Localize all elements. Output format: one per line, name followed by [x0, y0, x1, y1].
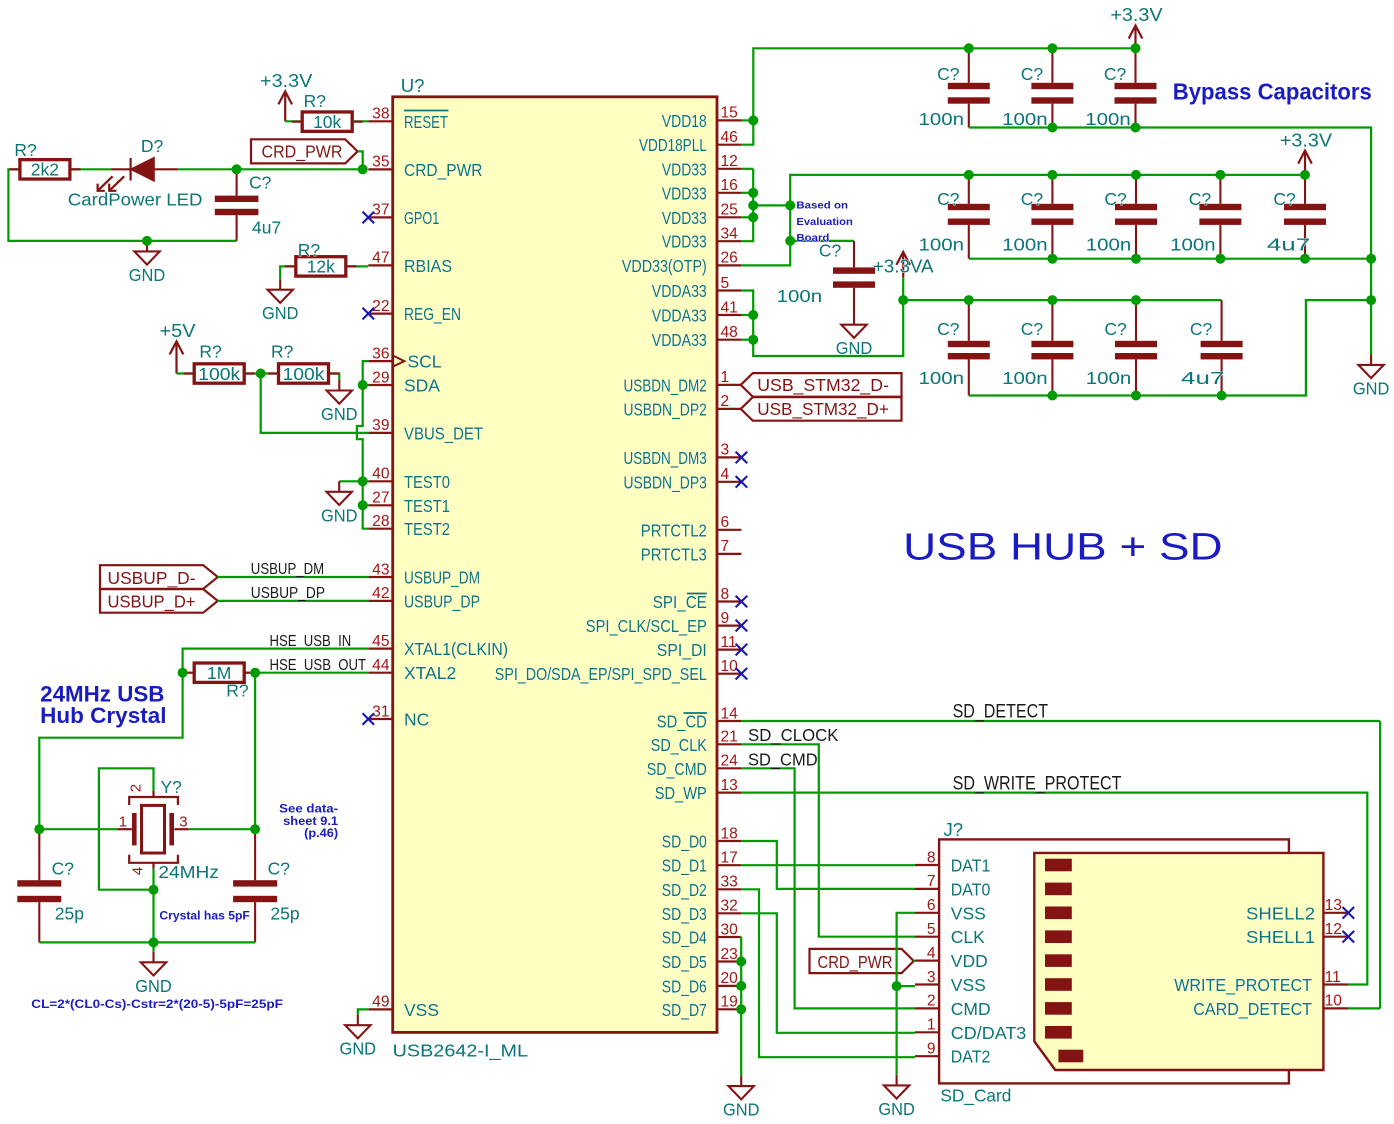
svg-text:12: 12: [721, 153, 738, 170]
connector pin 12 SHELL1: [1323, 936, 1348, 938]
svg-text:2k2: 2k2: [31, 160, 59, 180]
wire USBUP_D- to pin: [218, 576, 368, 578]
wire SD_D1 to DAT1: [741, 864, 915, 866]
svg-text:7: 7: [721, 538, 730, 555]
no-connect pin 3: [736, 452, 748, 464]
wire 2k2 to LED: [70, 168, 111, 170]
svg-text:USBUP_D+: USBUP_D+: [108, 592, 196, 613]
connector pin 4 VDD: [915, 959, 939, 961]
svg-text:C?: C?: [268, 859, 291, 879]
svg-text:SD_D1: SD_D1: [662, 856, 707, 877]
svg-text:19: 19: [721, 994, 738, 1011]
svg-text:CLK: CLK: [951, 927, 985, 947]
svg-text:37: 37: [372, 202, 389, 219]
junction link right: [785, 200, 795, 210]
svg-text:USBUP_DP: USBUP_DP: [251, 585, 325, 602]
svg-text:VSS: VSS: [404, 1000, 439, 1020]
svg-text:SD_Card: SD_Card: [940, 1086, 1011, 1107]
svg-text:HSE_USB_IN: HSE_USB_IN: [270, 633, 352, 650]
svg-text:2: 2: [128, 784, 145, 792]
no-connect pin 37: [363, 212, 375, 224]
svg-text:30: 30: [721, 921, 739, 938]
svg-text:CRD_PWR: CRD_PWR: [262, 142, 343, 163]
connector pin 1 CD/DAT3: [915, 1031, 939, 1033]
SD pad 7: [1045, 1002, 1072, 1015]
svg-text:U?: U?: [401, 75, 425, 96]
svg-text:13: 13: [721, 777, 738, 794]
junction rail3 top x1052: [1047, 295, 1057, 305]
svg-text:SD_D6: SD_D6: [662, 976, 707, 997]
svg-text:C?: C?: [1273, 189, 1296, 209]
bypass capacitor C? 100n (row1-2): [1031, 48, 1073, 127]
resistor R? 100k (2) leads: [268, 372, 339, 374]
wire XTAL2 to 1M right: [255, 672, 368, 674]
svg-text:GPO1: GPO1: [404, 208, 439, 228]
svg-text:27: 27: [372, 490, 389, 507]
pin 46 VDD18PLL (right): [717, 144, 741, 146]
svg-text:+3.3V: +3.3V: [1110, 4, 1163, 25]
wire +3.3VA stem: [902, 277, 904, 300]
svg-text:Hub Crystal: Hub Crystal: [40, 703, 166, 728]
svg-text:SHELL1: SHELL1: [1246, 927, 1315, 947]
wire SCL/SDA/TEST vertical: [357, 361, 368, 529]
svg-text:15: 15: [721, 105, 739, 122]
svg-text:40: 40: [372, 466, 390, 483]
svg-text:USBDN_DP2: USBDN_DP2: [624, 399, 707, 420]
svg-text:24MHz: 24MHz: [158, 862, 219, 882]
pin 24 SD_CMD (right): [717, 767, 741, 769]
wire crystal gnd rail: [39, 941, 255, 943]
pin 8 SPI_CE (right): [717, 600, 741, 602]
svg-text:USB2642-I_ML: USB2642-I_ML: [393, 1041, 529, 1062]
bypass capacitor C? 4u7 (row3-4): [1201, 300, 1243, 395]
pin 16 VDD33 (right): [717, 192, 741, 194]
hierarchical label CRD_PWR: [251, 139, 358, 163]
junction link left: [748, 200, 758, 210]
SPI_CE overline: [687, 593, 707, 595]
pin 4 USBDN_DP3 (right): [717, 481, 741, 483]
SD pad 5: [1045, 954, 1072, 967]
svg-text:CARD_DETECT: CARD_DETECT: [1193, 999, 1312, 1020]
SD pad 3: [1045, 907, 1072, 920]
resistor R? 1M leads: [184, 672, 255, 674]
wire CRD_PWR tip to pin35: [358, 151, 363, 169]
svg-text:R?: R?: [226, 680, 249, 700]
svg-text:8: 8: [721, 586, 730, 603]
svg-text:C?: C?: [1021, 64, 1044, 84]
pin 11 SPI_DI (right): [717, 648, 741, 650]
wire SD_DETECT: [741, 720, 1380, 722]
bypass capacitor C? 100n (row2-1): [948, 175, 990, 259]
svg-text:49: 49: [372, 994, 389, 1011]
svg-text:100n: 100n: [1086, 368, 1132, 388]
svg-text:+3.3V: +3.3V: [260, 70, 313, 91]
svg-text:12: 12: [1325, 921, 1342, 938]
svg-text:VSS: VSS: [951, 975, 986, 995]
svg-text:SD_D4: SD_D4: [662, 928, 707, 949]
svg-text:2: 2: [927, 993, 936, 1010]
connector pin 6 VSS: [915, 912, 939, 914]
power +3.3VA: [896, 252, 910, 277]
SD pad 4: [1045, 930, 1072, 943]
no-connect pin 10: [736, 668, 748, 680]
power +3.3V (rail2): [1298, 151, 1312, 175]
power +3.3V (rail1): [1129, 26, 1143, 49]
resistor R? 2k2 leads: [9, 168, 80, 170]
power +5V: [170, 341, 184, 373]
svg-text:22: 22: [372, 298, 389, 315]
junction rail3 bottom x1221: [1217, 391, 1227, 401]
capacitor C? 25p (left): [17, 829, 61, 942]
pin 49 VSS (left): [368, 1008, 392, 1010]
junction rail2 bottom x1052: [1047, 254, 1057, 264]
wire SD_D2 to DAT2: [741, 889, 915, 1057]
svg-text:C?: C?: [249, 172, 272, 192]
svg-text:USBUP_DM: USBUP_DM: [251, 561, 324, 578]
LED D? CardPower: [98, 158, 178, 191]
pin 34 VDD33 (right): [717, 240, 741, 242]
svg-text:DAT2: DAT2: [951, 1047, 991, 1067]
junction SDA: [358, 380, 368, 390]
ground (VSS): [345, 1015, 370, 1039]
svg-text:SD_CLOCK: SD_CLOCK: [748, 725, 839, 746]
svg-text:100k: 100k: [198, 364, 240, 384]
svg-text:16: 16: [721, 177, 738, 194]
pin 39 VBUS_DET (left): [368, 432, 392, 434]
wire VDDA33 chain: [741, 291, 903, 357]
wire VSS3 stub: [897, 985, 915, 987]
svg-text:GND: GND: [321, 404, 358, 424]
SD pad 1: [1045, 859, 1072, 872]
svg-text:SD_WRITE_PROTECT: SD_WRITE_PROTECT: [953, 774, 1122, 795]
pin 2 USBDN_DP2 (right): [717, 408, 741, 410]
wire +3.3V to R 10k: [285, 120, 302, 122]
svg-text:SPI_DO/SDA_EP/SPI_SPD_SEL: SPI_DO/SDA_EP/SPI_SPD_SEL: [495, 664, 707, 685]
svg-text:RBIAS: RBIAS: [404, 256, 452, 276]
wire pin12 stub: [741, 168, 753, 170]
ground (RBIAS): [268, 279, 293, 303]
bypass capacitor C? 100n (row1-3): [1115, 48, 1157, 127]
svg-text:4u7: 4u7: [252, 218, 281, 238]
wire SD_CMD: [741, 768, 915, 1008]
svg-text:25p: 25p: [55, 904, 84, 924]
SD pad 9 (DAT2): [1058, 1050, 1083, 1063]
svg-text:XTAL1(CLKIN): XTAL1(CLKIN): [404, 639, 508, 659]
svg-text:4: 4: [927, 945, 936, 962]
svg-text:100n: 100n: [1002, 368, 1048, 388]
svg-text:10: 10: [1325, 993, 1343, 1010]
hierarchical label CRD_PWR (SD): [810, 949, 914, 973]
svg-text:23: 23: [721, 946, 738, 963]
svg-text:TEST1: TEST1: [404, 496, 450, 516]
svg-text:USBUP_DM: USBUP_DM: [404, 568, 480, 589]
wire SD_D3 to CD/DAT3: [741, 913, 915, 1033]
svg-text:4: 4: [130, 867, 147, 875]
svg-text:C?: C?: [1104, 319, 1127, 339]
wire crystal pin3: [189, 828, 255, 830]
svg-text:6: 6: [927, 897, 936, 914]
junction LED/C4u7: [232, 164, 242, 174]
wire rail2 bottom: [969, 258, 1371, 260]
wire XTAL1 to crystal left: [39, 649, 368, 830]
svg-text:REG_EN: REG_EN: [404, 304, 461, 325]
svg-text:100n: 100n: [919, 368, 965, 388]
wire LED to junction: [178, 168, 363, 170]
svg-text:38: 38: [372, 106, 389, 123]
svg-text:+3.3VA: +3.3VA: [873, 255, 934, 276]
svg-text:17: 17: [721, 850, 738, 867]
pin 6 PRTCTL2 (right): [717, 529, 741, 531]
svg-text:GND: GND: [340, 1039, 377, 1059]
svg-text:11: 11: [721, 634, 737, 651]
svg-text:VBUS_DET: VBUS_DET: [404, 423, 483, 444]
svg-text:GND: GND: [262, 303, 299, 323]
pin 20 SD_D6 (right): [717, 985, 741, 987]
svg-text:SD_DETECT: SD_DETECT: [953, 701, 1049, 722]
wire VSS to gnd: [358, 1009, 369, 1014]
svg-text:D?: D?: [141, 136, 164, 156]
pin 17 SD_D1 (right): [717, 864, 741, 866]
RESET overline: [404, 110, 449, 112]
pin 30 SD_D4 (right): [717, 936, 741, 938]
junction pin16: [748, 188, 758, 198]
svg-text:SD_CD: SD_CD: [657, 712, 707, 733]
svg-text:9: 9: [721, 610, 730, 627]
svg-text:See data-: See data-: [279, 804, 338, 816]
svg-text:26: 26: [721, 250, 738, 267]
svg-text:48: 48: [721, 324, 738, 341]
svg-text:1: 1: [721, 369, 730, 386]
wire SD_DETECT down: [1379, 721, 1381, 1008]
junction rail1b c2: [1047, 123, 1057, 133]
bypass capacitor C? 100n (row3-1): [948, 300, 990, 395]
junction pin48: [748, 335, 758, 345]
wire CRD_PWR to VDD: [914, 959, 915, 962]
svg-text:GND: GND: [135, 976, 172, 996]
wire SD_D0 to DAT0: [741, 841, 915, 889]
svg-text:GND: GND: [321, 505, 358, 525]
svg-text:C?: C?: [1104, 189, 1127, 209]
svg-text:VDD: VDD: [951, 951, 988, 971]
SD pad 2: [1045, 883, 1072, 896]
SD pad 8: [1045, 1026, 1072, 1039]
svg-text:GND: GND: [878, 1099, 915, 1119]
svg-text:10: 10: [721, 658, 739, 675]
svg-text:CL=2*(CL0-Cs)-Cstr=2*(20-5)-5p: CL=2*(CL0-Cs)-Cstr=2*(20-5)-5pF=25pF: [31, 999, 283, 1011]
wire pin25 stub: [741, 216, 753, 218]
svg-text:C?: C?: [1104, 64, 1127, 84]
resistor R? 10k leads: [292, 121, 363, 123]
pin 18 SD_D0 (right): [717, 840, 741, 842]
svg-text:SPI_CE: SPI_CE: [653, 592, 707, 613]
svg-text:100n: 100n: [919, 235, 965, 255]
svg-text:USB_STM32_D+: USB_STM32_D+: [757, 399, 889, 420]
wire pin15 stub: [741, 119, 753, 121]
junction 1M left: [178, 668, 188, 678]
pin 13 SD_WP (right): [717, 791, 741, 793]
junction rail1 c1: [964, 43, 974, 53]
svg-text:44: 44: [372, 657, 390, 674]
svg-text:25: 25: [721, 202, 739, 219]
no-connect connector pin 12: [1343, 931, 1355, 943]
junction SD_D7: [736, 1004, 746, 1014]
ground (SD_D chain): [729, 1076, 754, 1100]
svg-text:100n: 100n: [1002, 109, 1048, 129]
junction rail2 top x1052: [1047, 170, 1057, 180]
resistor R? 100k (2): [279, 364, 329, 383]
svg-text:3: 3: [721, 442, 730, 459]
svg-text:9: 9: [927, 1041, 936, 1058]
pin 32 SD_D3 (right): [717, 912, 741, 914]
svg-text:7: 7: [927, 873, 936, 890]
svg-text:20: 20: [721, 970, 739, 987]
svg-text:USBDN_DM3: USBDN_DM3: [624, 448, 707, 469]
power +3.3V (RESET pullup): [278, 91, 292, 121]
junction rail2 top x1136: [1131, 170, 1141, 180]
wire SD_WRITE_PROTECT: [741, 793, 1367, 985]
svg-text:13: 13: [1325, 897, 1342, 914]
junction pin15: [748, 115, 758, 125]
connector pin 5 CLK: [915, 936, 939, 938]
svg-text:(p.46): (p.46): [304, 828, 338, 840]
svg-text:47: 47: [372, 250, 389, 267]
svg-text:TEST2: TEST2: [404, 519, 450, 539]
wire 12k left down: [280, 266, 296, 279]
svg-text:C?: C?: [1189, 189, 1212, 209]
wire pin41 stub: [741, 314, 753, 316]
svg-text:NC: NC: [404, 710, 429, 730]
svg-text:C?: C?: [819, 240, 842, 260]
bypass capacitor C? 100n (row1-1): [948, 48, 990, 127]
wire connector VSS gnd: [897, 913, 915, 1075]
junction case pins: [149, 885, 159, 895]
svg-text:5: 5: [927, 921, 936, 938]
svg-text:5: 5: [721, 275, 730, 292]
no-connect pin 8: [736, 596, 748, 608]
pin 23 SD_D5 (right): [717, 960, 741, 962]
pin 26 VDD33(OTP) (right): [717, 264, 741, 266]
pin 28 TEST2 (left): [368, 528, 392, 530]
pin 31 NC (left): [368, 718, 392, 720]
svg-text:C?: C?: [1021, 189, 1044, 209]
pin 42 USBUP_DP (left): [368, 600, 392, 602]
wire +5V to 100k: [177, 372, 195, 374]
wire VDD33 rail2 feed: [741, 175, 1305, 266]
svg-text:4u7: 4u7: [1267, 235, 1310, 255]
wire rail3 bottom: [969, 300, 1371, 395]
SD_CD overline: [684, 712, 707, 714]
svg-text:46: 46: [721, 129, 738, 146]
svg-text:Based on: Based on: [796, 200, 848, 212]
wire rail1 bottom: [969, 128, 1371, 301]
svg-text:USB HUB + SD: USB HUB + SD: [903, 527, 1223, 569]
no-connect pin 9: [736, 620, 748, 632]
connector pin 9 DAT2: [915, 1055, 939, 1057]
connector J? outer body: [939, 839, 1289, 1083]
junction gnd rail crystal: [149, 937, 159, 947]
bypass capacitor C? 100n (row2-4): [1199, 175, 1241, 259]
svg-text:DAT1: DAT1: [951, 856, 991, 876]
wire TEST1 stub: [363, 504, 369, 506]
junction rail3 top x1136: [1131, 295, 1141, 305]
bypass capacitor C? 4u7 (row2-5): [1284, 175, 1326, 259]
svg-text:VDD18PLL: VDD18PLL: [639, 135, 707, 155]
svg-text:31: 31: [372, 703, 389, 720]
svg-text:TEST0: TEST0: [404, 472, 450, 492]
pin 45 XTAL1(CLKIN) (left): [368, 647, 392, 649]
svg-text:GND: GND: [129, 265, 166, 285]
svg-text:41: 41: [721, 299, 738, 316]
wire crystal pin1: [39, 828, 117, 830]
svg-text:34: 34: [721, 226, 739, 243]
svg-text:3: 3: [179, 814, 187, 831]
junction crystal right: [250, 824, 260, 834]
connector pin 11 WRITE_PROTECT: [1323, 983, 1348, 985]
junction CRD_PWR/pin35: [358, 164, 368, 174]
pin 33 SD_D2 (right): [717, 888, 741, 890]
junction gnd vert row3: [1366, 295, 1376, 305]
junction pin41: [748, 310, 758, 320]
wire pin48 stub: [741, 339, 753, 341]
wire pin16 stub: [741, 192, 753, 194]
svg-text:VDD33: VDD33: [662, 232, 707, 252]
bypass capacitor C? 100n (row2-3): [1115, 175, 1157, 259]
ground (filter cap): [841, 314, 866, 338]
bypass capacitor C? 100n (row3-2): [1031, 300, 1073, 395]
junction rail3 top x968: [964, 295, 974, 305]
junction rail3 bottom x1052: [1047, 391, 1057, 401]
pin 37 GPO1 (left): [368, 216, 392, 218]
ground (100k): [327, 380, 352, 404]
svg-text:100n: 100n: [777, 286, 823, 306]
svg-text:43: 43: [372, 561, 389, 578]
svg-text:CMD: CMD: [951, 999, 991, 1019]
resistor R? 100k (1): [194, 364, 244, 383]
junction TEST1: [358, 500, 368, 510]
SCL clock wedge: [393, 356, 405, 367]
svg-text:VDD33: VDD33: [662, 183, 707, 203]
pin 3 USBDN_DM3 (right): [717, 456, 741, 458]
bypass capacitor C? 100n (row3-3): [1115, 300, 1157, 395]
ground (TEST): [327, 481, 352, 505]
no-connect pin 4: [736, 476, 748, 488]
wire cross link: [753, 204, 790, 206]
pin 41 VDDA33 (right): [717, 314, 741, 316]
junction SD_D5: [736, 957, 746, 967]
pin 12 VDD33 (right): [717, 168, 741, 170]
svg-text:USBDN_DM2: USBDN_DM2: [624, 375, 707, 396]
svg-text:PRTCTL2: PRTCTL2: [641, 520, 707, 540]
wire 1M right down: [254, 673, 256, 830]
junction rail1 c3: [1131, 43, 1141, 53]
junction rail1b c3: [1131, 123, 1141, 133]
wire SD_CLOCK: [741, 744, 915, 936]
svg-text:sheet 9.1: sheet 9.1: [283, 816, 339, 828]
svg-text:C?: C?: [1190, 319, 1213, 339]
pin 7 PRTCTL3 (right): [717, 553, 741, 555]
pin 40 TEST0 (left): [368, 480, 392, 482]
svg-text:25p: 25p: [270, 904, 299, 924]
svg-text:SDA: SDA: [404, 376, 440, 396]
svg-text:R?: R?: [14, 140, 37, 160]
svg-text:R?: R?: [304, 91, 327, 111]
junction 1M right: [250, 668, 260, 678]
svg-text:45: 45: [372, 633, 390, 650]
svg-text:USB_STM32_D-: USB_STM32_D-: [757, 375, 889, 396]
pin 48 VDDA33 (right): [717, 339, 741, 341]
wire USBUP_D+ to pin: [218, 600, 368, 602]
junction cap feed: [785, 236, 795, 246]
